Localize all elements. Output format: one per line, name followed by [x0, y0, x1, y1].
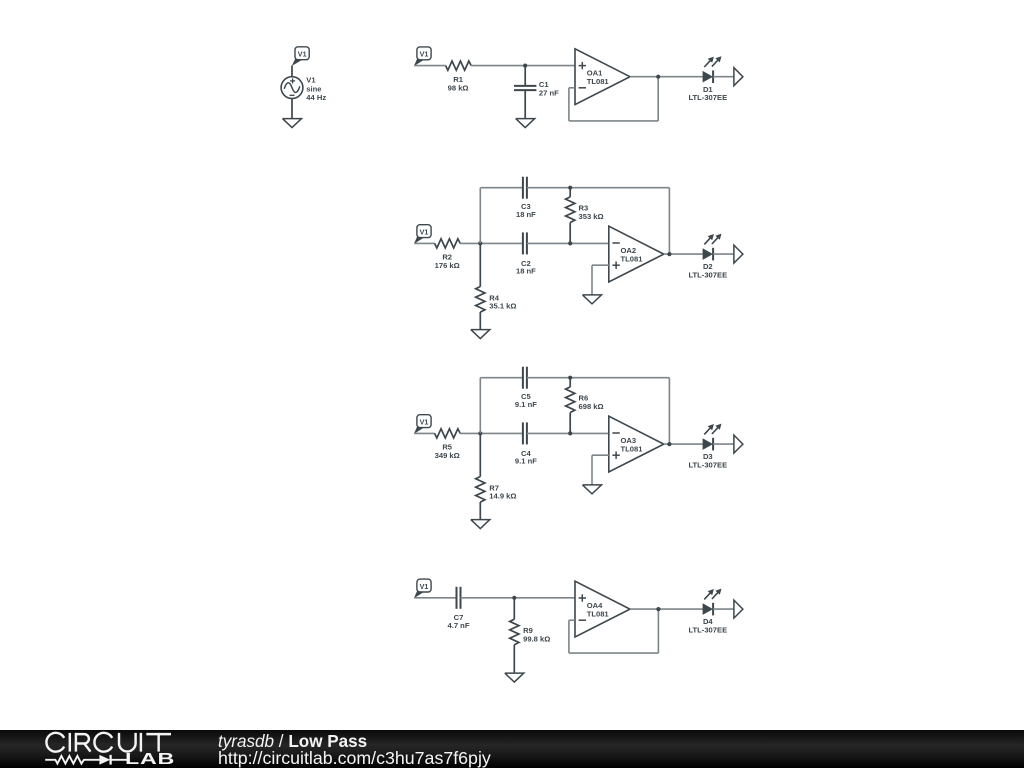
svg-text:V1: V1	[298, 50, 307, 59]
svg-text:4.7 nF: 4.7 nF	[448, 621, 470, 630]
svg-text:TL081: TL081	[621, 255, 644, 264]
svg-text:9.1 nF: 9.1 nF	[515, 457, 537, 466]
svg-text:TL081: TL081	[587, 77, 610, 86]
svg-text:V1: V1	[306, 76, 316, 85]
svg-text:18 nF: 18 nF	[516, 267, 536, 276]
svg-text:27 nF: 27 nF	[539, 89, 559, 98]
svg-text:698 kΩ: 698 kΩ	[579, 402, 604, 411]
svg-text:176 kΩ: 176 kΩ	[435, 261, 460, 270]
svg-text:TL081: TL081	[587, 610, 610, 619]
svg-text:349 kΩ: 349 kΩ	[435, 451, 460, 460]
svg-text:99.8 kΩ: 99.8 kΩ	[523, 634, 550, 643]
svg-text:V1: V1	[420, 582, 429, 591]
svg-text:35.1 kΩ: 35.1 kΩ	[489, 302, 516, 311]
svg-text:44 Hz: 44 Hz	[306, 93, 326, 102]
svg-text:353 kΩ: 353 kΩ	[579, 212, 604, 221]
svg-text:V1: V1	[420, 417, 429, 426]
svg-text:14.9 kΩ: 14.9 kΩ	[489, 492, 516, 501]
svg-text:9.1 nF: 9.1 nF	[515, 400, 537, 409]
svg-text:LTL-307EE: LTL-307EE	[688, 271, 727, 280]
svg-text:LTL-307EE: LTL-307EE	[688, 626, 727, 635]
svg-text:sine: sine	[306, 84, 321, 93]
svg-text:TL081: TL081	[621, 445, 644, 454]
svg-text:LTL-307EE: LTL-307EE	[688, 93, 727, 102]
svg-text:18 nF: 18 nF	[516, 210, 536, 219]
svg-text:LTL-307EE: LTL-307EE	[688, 461, 727, 470]
svg-text:98 kΩ: 98 kΩ	[448, 83, 469, 92]
svg-text:V1: V1	[420, 227, 429, 236]
svg-text:V1: V1	[420, 50, 429, 59]
